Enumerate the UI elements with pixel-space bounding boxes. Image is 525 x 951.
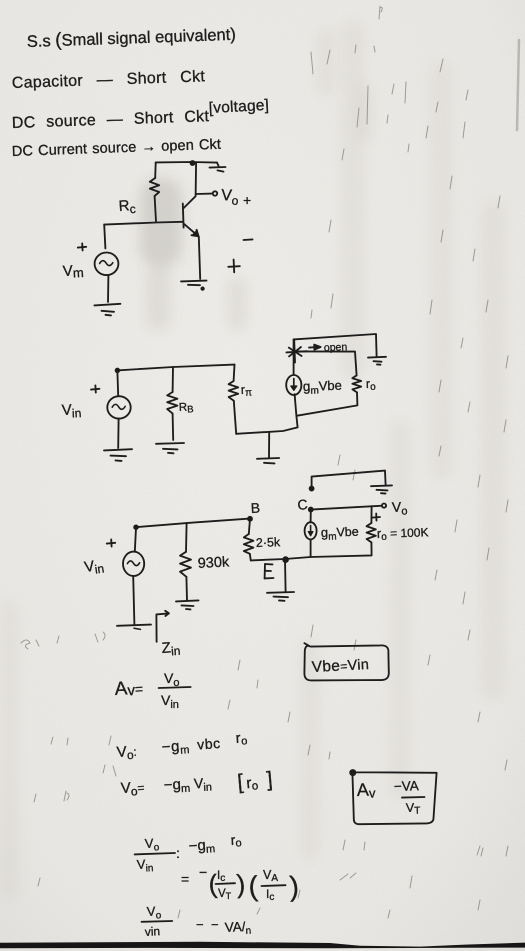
svg-text:): ): [236, 869, 246, 899]
label node E (bracket): [265, 564, 274, 578]
ground C3 source: [117, 625, 151, 630]
node C3 bracket dot: [310, 487, 314, 491]
wire Vm bottom (C1): [107, 276, 109, 302]
label 2.5k: [256, 535, 282, 550]
label open text (C2): [324, 341, 348, 354]
ground C2 top right: [368, 357, 386, 365]
wire C3 E bottom rail: [251, 557, 311, 562]
equation fraction bar Av: [159, 687, 191, 688]
equation Vo = -gm vbc ro: [116, 730, 248, 763]
svg-text:−: −: [196, 917, 204, 932]
wire 930k to ground: [185, 577, 188, 600]
note line: DC source - Short Ckt [voltage]: [12, 97, 270, 132]
ground C1 emitter: [181, 281, 207, 290]
svg-text:vin: vin: [144, 924, 160, 939]
wire Vo node to ro (C3): [370, 506, 372, 523]
label plus (C1 source polarity): [78, 243, 86, 250]
label Vo (C3 output): [392, 498, 408, 518]
svg-text:Vbe=Vin: Vbe=Vin: [311, 656, 369, 676]
svg-text:−: −: [211, 917, 219, 932]
label plus (C2 source polarity): [91, 385, 99, 392]
wire Vin bottom (C2): [117, 419, 119, 448]
ground C2 source: [104, 449, 132, 461]
wire node B to 2.5k: [249, 519, 250, 534]
label minus sign (C1 output polarity): [244, 238, 253, 241]
label node B: [250, 500, 260, 516]
dark table edge at photo bottom: [0, 942, 525, 949]
label ro (C2): [366, 377, 377, 393]
label Vo+ (circuit 1 output): [221, 187, 252, 208]
resistor 2.5k: [244, 534, 254, 554]
svg-text:Vm: Vm: [62, 262, 84, 281]
label plus (C3 source polarity): [107, 539, 115, 546]
wire node C to Vo terminal: [311, 506, 381, 510]
node B junction dot: [248, 517, 252, 521]
source Vin (C2, AC): [107, 396, 130, 418]
wire node C to current source: [310, 510, 312, 523]
label gmVbe (C2): [303, 378, 343, 397]
wire C2 rail to r_pi: [233, 365, 236, 381]
resistor RB: [167, 392, 177, 414]
label Zin with arrow: [156, 611, 169, 642]
label Vin (C2): [61, 401, 81, 421]
node C3 rail left junction: [134, 525, 138, 529]
ground C1 source: [94, 304, 120, 316]
label node C: [297, 496, 309, 513]
wire C2 top rail: [117, 365, 235, 371]
ground C3 930k: [176, 600, 199, 609]
wire C1 top rail: [156, 161, 217, 164]
transistor Q1 emitter lead with arrow: [184, 224, 199, 237]
svg-text:+: +: [243, 192, 251, 208]
svg-text:[voltage]: [voltage]: [208, 97, 269, 117]
node C junction dot: [309, 508, 313, 512]
wire collector to Vo terminal: [196, 193, 212, 195]
equation Vo/Vin = -gm ro: [136, 831, 242, 875]
note line: S.s (Small signal equivalent): [26, 24, 236, 52]
source gmVbe (C2 dependent current source): [286, 375, 301, 395]
equation fraction bars (Ic/VT)(VA/Ic): [216, 883, 286, 886]
label plus sign (C1 output polarity): [228, 260, 240, 273]
wire E rail to ground: [284, 559, 287, 591]
equation Av = -VA/VT (boxed): [356, 778, 420, 817]
node C2 rail left junction: [116, 369, 120, 373]
svg-text:=: =: [181, 871, 189, 887]
label Zin text: [161, 639, 181, 659]
wire cs bottom to rail (C3): [311, 539, 372, 557]
box Av = -VA/VT: [350, 770, 436, 824]
wire RB to ground: [172, 414, 175, 440]
svg-text:): ): [289, 871, 300, 902]
svg-text:930k: 930k: [197, 554, 230, 572]
resistor r_pi: [229, 381, 239, 401]
label ro = 100K: [377, 524, 429, 543]
wire Vin top (C2): [116, 371, 119, 395]
label RB: [179, 401, 194, 416]
label 930k: [197, 554, 230, 572]
wire 2.5k to E rail: [250, 554, 251, 561]
ground C2 middle: [257, 433, 279, 464]
svg-text::: :: [176, 845, 180, 861]
label r_pi: [240, 382, 252, 399]
svg-text:C: C: [297, 496, 309, 513]
node C2 open mark (X on broken wire): [286, 340, 307, 363]
label Vin (C3): [83, 556, 105, 578]
wire C2 rail to RB: [172, 367, 174, 392]
wire C2 top bracket to ground: [294, 334, 377, 356]
resistor ro (C3): [367, 523, 376, 542]
wire r_pi to bottom rail: [234, 401, 236, 434]
node C1 rail junction dot: [191, 161, 195, 165]
resistor RC: [150, 178, 159, 196]
wire C3 top bracket (collector to ground): [312, 471, 386, 489]
label gmVbe (C3): [321, 524, 359, 543]
wire Vin top (C3): [135, 528, 136, 552]
svg-text:−: −: [199, 864, 207, 880]
equation fraction bar (Vo/Vin): [135, 853, 175, 854]
wire base (Vin to transistor): [104, 222, 182, 225]
wire C1 rail to resistor: [154, 162, 157, 178]
ground C1 open DC source (right of rail): [210, 163, 226, 172]
equation Vbe = Vin (boxed): [311, 656, 369, 676]
wire C2 inner top (cs to ro): [294, 351, 357, 375]
wire C3 rail to 930k: [185, 523, 188, 552]
svg-text:Ic: Ic: [217, 870, 225, 884]
label plus (C3 output polarity): [373, 514, 380, 521]
equation Vo/vin = -VA/VT: [144, 903, 251, 939]
note line: Capacitor - Short Ckt: [12, 68, 206, 92]
wire Vin top (C1): [104, 225, 105, 249]
box Vbe = Vin: [304, 643, 388, 680]
node Vo terminal C3 (open circle): [382, 504, 386, 508]
ground C2 RB: [156, 443, 184, 453]
source Vm (C1 input, AC): [95, 252, 119, 275]
resistor ro (C2): [352, 375, 361, 392]
equation = -(Ic/VT)(VA/Ic): [181, 864, 300, 903]
label RC: [118, 197, 136, 217]
source Vin (C3, AC): [123, 552, 144, 576]
ground C3 E: [267, 592, 294, 601]
equation Vo = -gm Vin [ro]: [120, 768, 273, 799]
equation fraction bar (Vo/vin): [142, 920, 173, 923]
svg-text:B: B: [250, 500, 260, 516]
ground C3 top right: [371, 485, 392, 493]
wire C2 current source top stub: [293, 339, 295, 374]
svg-text:2·5k: 2·5k: [256, 535, 282, 550]
source gmVbe (C3 dependent current source): [305, 522, 317, 539]
wire C2 bottom rail: [236, 416, 297, 434]
wire C2 cs bottom rail to ro: [295, 392, 358, 415]
transistor Q1 collector lead: [183, 163, 196, 209]
equation Av = Vo/Vin: [114, 670, 179, 711]
node Vo terminal (open circle): [213, 191, 217, 195]
transistor Q1 base bar: [182, 204, 185, 228]
label open arrow (C2): [309, 345, 321, 350]
svg-text:−VA: −VA: [394, 778, 419, 794]
note line: DC Current source -> open Ckt: [12, 137, 222, 160]
label Vm: [62, 262, 84, 281]
resistor 930k: [180, 552, 191, 577]
wire C3 top rail (Vin to node B): [135, 519, 249, 528]
equation fraction bar (boxed Av): [402, 796, 425, 799]
wire Vin bottom (C3): [133, 576, 134, 624]
wire emitter to ground: [199, 237, 200, 279]
wire RC bottom to base node: [155, 196, 156, 222]
